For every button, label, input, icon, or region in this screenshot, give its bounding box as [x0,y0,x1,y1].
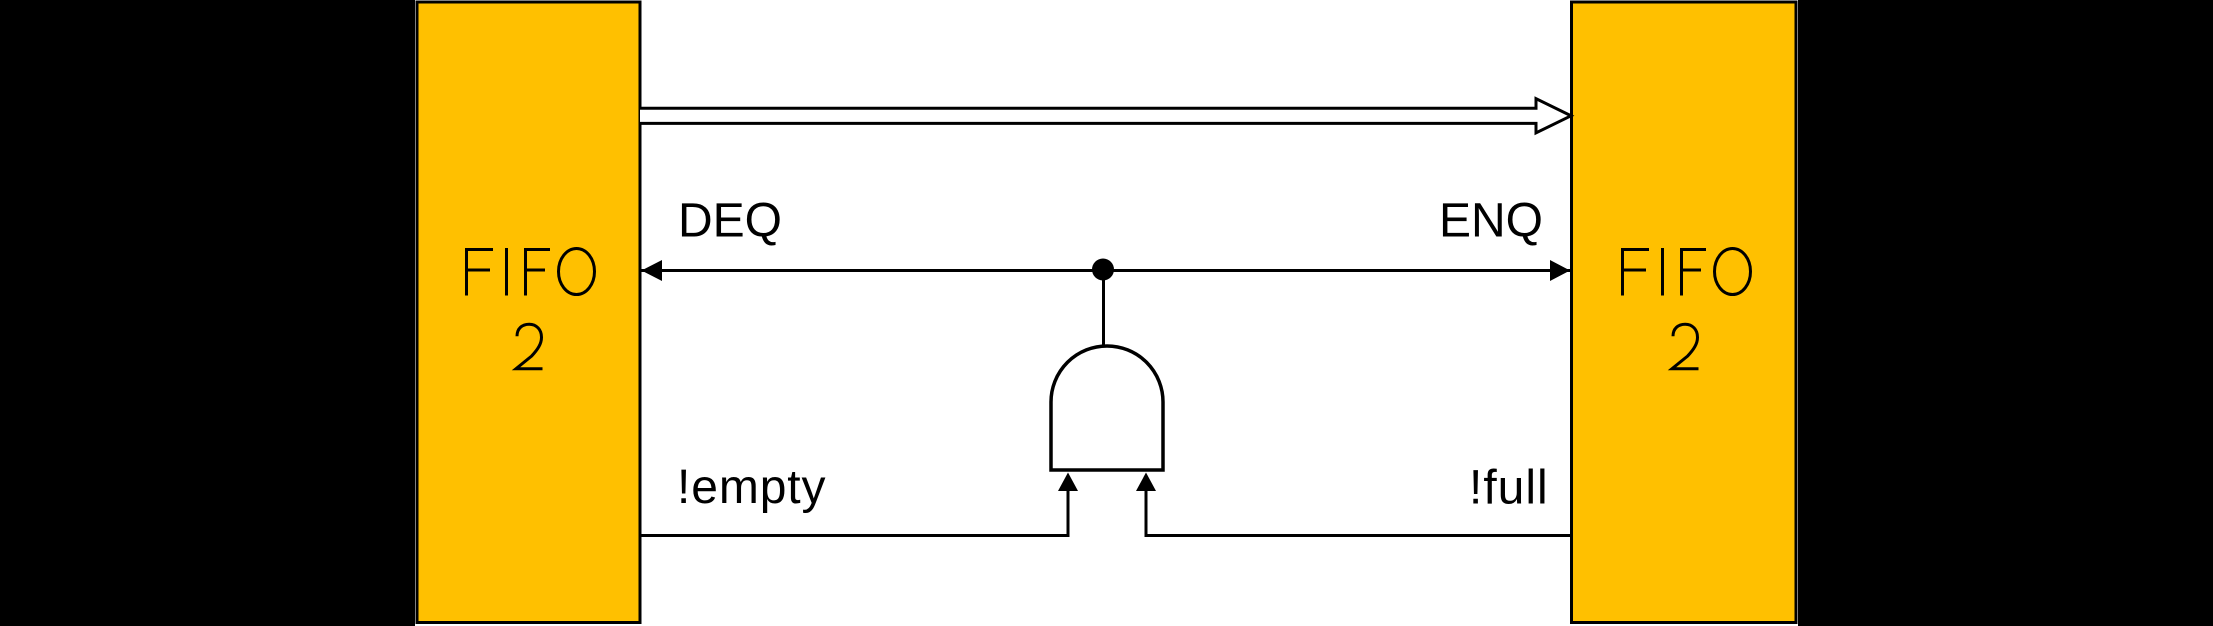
arrowhead: !full into gate [1136,473,1156,492]
wire: !empty input to AND gate [641,490,1068,536]
svg-text:!empty: !empty [677,461,826,514]
label FIFO 2 (left box) [465,248,595,369]
svg-text:ENQ: ENQ [1439,195,1543,248]
node: junction dot [1092,259,1114,281]
AND gate U1 (rotated, output up) [1051,346,1163,470]
wire: junction to AND gate output [1102,270,1105,346]
arrowhead left (DEQ) [642,260,663,281]
arrowhead right (ENQ) [1550,260,1570,281]
wire: DEQ/ENQ control line [641,269,1570,272]
wire: !full input to AND gate [1146,490,1570,536]
label FIFO 2 (right box) [1621,248,1751,369]
FIFO box left (FIFO 2) [417,2,640,623]
wire: wide data bus arrow from left FIFO to right FIFO [640,99,1571,133]
arrowhead: !empty into gate [1058,473,1078,492]
slide background [415,0,1798,626]
FIFO box right (FIFO 2) [1572,2,1797,623]
svg-text:DEQ: DEQ [678,195,782,248]
svg-text:!full: !full [1469,462,1549,515]
